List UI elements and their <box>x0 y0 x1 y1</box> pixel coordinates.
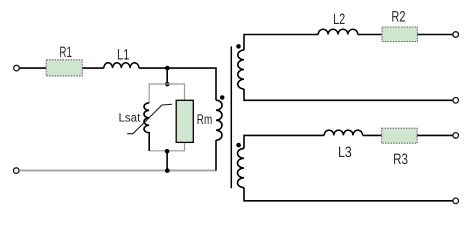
wire W3 return rail <box>244 188 453 201</box>
terminal T3 <box>453 32 459 38</box>
transformer core <box>230 46 232 188</box>
transformer secondary winding W3 <box>237 148 244 187</box>
terminal T1 (input top) <box>14 65 20 71</box>
wire gray frame of parallel branch <box>149 84 184 151</box>
wire L3 to R3 <box>363 134 382 136</box>
svg-text:R3: R3 <box>393 151 408 168</box>
wire bottom rail (gray) <box>19 170 216 172</box>
wire T1 to R1 <box>19 67 46 69</box>
svg-text:R2: R2 <box>391 8 405 25</box>
wire stub down to shunt branch <box>166 68 168 84</box>
svg-text:Rm: Rm <box>197 111 212 127</box>
saturation line of Lsat <box>127 104 172 133</box>
wire W2 top to L2 <box>244 35 318 51</box>
resistor R3 <box>382 128 417 143</box>
junction dot shunt bottom <box>165 149 170 154</box>
resistor R1 <box>46 60 82 76</box>
terminal T4 <box>453 98 459 104</box>
junction dot shunt top <box>165 82 170 87</box>
junction dot top wire <box>165 66 170 71</box>
wire W3 top to L3 <box>244 135 324 148</box>
resistor R2 <box>382 27 417 42</box>
junction dot bottom wire <box>165 168 170 173</box>
wire primary bottom lead <box>215 140 217 170</box>
terminal T5 <box>453 133 459 139</box>
svg-text:L1: L1 <box>117 47 129 64</box>
inductor L1 <box>104 63 139 68</box>
transformer secondary winding W2 <box>238 50 244 89</box>
wire L2 to R2 <box>358 34 382 36</box>
wire R3 to T5 <box>417 134 453 136</box>
polarity dot primary <box>220 95 225 100</box>
saturable inductor Lsat coil <box>144 103 149 151</box>
svg-text:Lsat: Lsat <box>119 110 141 124</box>
polarity dot W2 <box>236 44 241 49</box>
wire R1 to L1 <box>82 67 104 69</box>
terminal T2 (input bottom) <box>13 168 19 174</box>
wire R2 to T3 <box>417 34 453 36</box>
svg-text:L3: L3 <box>338 144 352 161</box>
polarity dot W3 <box>236 143 241 148</box>
svg-text:L2: L2 <box>333 11 345 28</box>
transformer primary winding <box>216 100 222 140</box>
wire stub shunt bottom to bottom rail <box>166 151 168 170</box>
inductor L3 <box>324 130 362 135</box>
resistor Rm <box>176 100 193 142</box>
inductor L2 <box>318 29 358 34</box>
wire W2 return rail <box>244 89 453 100</box>
wire L1 to primary (with corner down) <box>139 68 216 100</box>
terminal T6 <box>453 198 459 204</box>
svg-text:R1: R1 <box>59 44 72 61</box>
